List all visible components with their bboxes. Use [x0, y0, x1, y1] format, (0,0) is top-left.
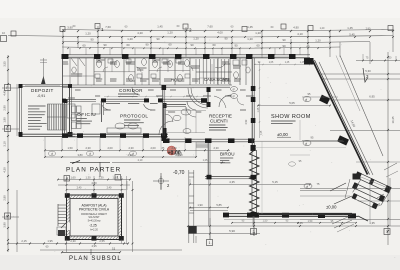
svg-text:1,20: 1,20	[255, 31, 261, 35]
svg-text:CORIDOR: CORIDOR	[119, 88, 143, 93]
svg-text:5,15: 5,15	[272, 180, 278, 184]
svg-text:5,30: 5,30	[365, 69, 371, 73]
svg-text:4,10: 4,10	[297, 32, 303, 36]
svg-text:1: 1	[101, 27, 104, 32]
svg-text:2,10: 2,10	[138, 159, 143, 162]
svg-text:1,50: 1,50	[67, 146, 73, 150]
svg-text:1,60: 1,60	[70, 175, 76, 179]
svg-text:5,85: 5,85	[216, 203, 222, 207]
svg-text:1: 1	[209, 241, 211, 245]
svg-text:90: 90	[282, 44, 286, 48]
svg-text:2,20: 2,20	[171, 146, 177, 150]
svg-text:3,80: 3,80	[77, 153, 83, 157]
svg-text:S=43,20mp: S=43,20mp	[88, 220, 101, 223]
svg-text:1,25: 1,25	[203, 159, 208, 162]
svg-text:1,20: 1,20	[193, 37, 199, 41]
svg-text:1,20: 1,20	[247, 37, 253, 41]
svg-text:90: 90	[90, 38, 94, 42]
svg-text:SCLIVISIT: SCLIVISIT	[88, 216, 100, 219]
svg-text:2,80: 2,80	[3, 195, 7, 201]
svg-text:90: 90	[282, 38, 286, 42]
svg-text:±0,00: ±0,00	[326, 205, 337, 210]
svg-text:3,90: 3,90	[3, 222, 7, 228]
svg-text:90: 90	[156, 37, 160, 41]
svg-text:4,35: 4,35	[229, 180, 235, 184]
svg-text:SHOW ROOM: SHOW ROOM	[271, 114, 311, 120]
svg-text:h=2,20: h=2,20	[90, 229, 98, 232]
svg-text:3,10: 3,10	[3, 141, 7, 147]
svg-text:1,90: 1,90	[3, 117, 7, 123]
svg-text:PROTOCOL: PROTOCOL	[120, 114, 148, 119]
svg-text:-2,25: -2,25	[89, 224, 97, 228]
svg-text:1,45: 1,45	[247, 25, 253, 29]
svg-text:-0,91: -0,91	[37, 94, 45, 98]
svg-text:7,60: 7,60	[105, 25, 111, 29]
svg-text:CLIENTI: CLIENTI	[210, 119, 228, 124]
svg-text:1,45: 1,45	[300, 62, 305, 64]
svg-text:2,40: 2,40	[107, 187, 112, 190]
svg-text:1,95: 1,95	[47, 239, 53, 243]
svg-text:1,20: 1,20	[320, 27, 325, 30]
svg-text:DEPOZIT: DEPOZIT	[31, 88, 54, 93]
svg-text:60: 60	[256, 44, 260, 48]
svg-text:2: 2	[189, 28, 192, 33]
svg-text:1,20: 1,20	[127, 37, 133, 41]
svg-text:4,20: 4,20	[137, 31, 143, 35]
svg-text:90: 90	[224, 37, 228, 41]
svg-text:90: 90	[145, 43, 149, 47]
svg-text:60: 60	[306, 45, 310, 49]
svg-text:±0,00: ±0,00	[277, 132, 288, 137]
svg-text:7,60: 7,60	[207, 24, 213, 28]
svg-text:90: 90	[103, 43, 107, 47]
svg-text:2,30: 2,30	[85, 146, 91, 150]
svg-text:5,05: 5,05	[289, 101, 295, 105]
svg-text:3,55: 3,55	[3, 61, 7, 67]
svg-text:2,80: 2,80	[366, 27, 371, 30]
svg-text:1,45: 1,45	[157, 25, 163, 29]
svg-text:4,95: 4,95	[91, 244, 97, 248]
svg-text:1,20: 1,20	[85, 32, 91, 36]
svg-text:4,90: 4,90	[293, 26, 299, 30]
svg-text:2,30: 2,30	[128, 146, 134, 150]
svg-text:-0,70: -0,70	[173, 170, 185, 176]
svg-text:1,45: 1,45	[347, 26, 353, 30]
svg-text:OFICIU: OFICIU	[77, 112, 96, 118]
svg-text:2,40: 2,40	[77, 187, 82, 190]
svg-text:1,50: 1,50	[263, 220, 268, 223]
svg-text:60: 60	[126, 43, 130, 47]
svg-text:60: 60	[168, 43, 172, 47]
svg-text:90: 90	[190, 43, 194, 47]
svg-text:60: 60	[82, 43, 86, 47]
svg-text:4,00: 4,00	[217, 31, 223, 35]
svg-text:PLAN SUBSOL: PLAN SUBSOL	[69, 256, 122, 262]
svg-text:1,65: 1,65	[269, 62, 274, 64]
svg-text:4,30: 4,30	[3, 167, 7, 173]
svg-text:5,45: 5,45	[349, 33, 355, 37]
svg-text:90: 90	[234, 43, 238, 47]
svg-text:HOL: HOL	[171, 78, 180, 83]
svg-text:6,95: 6,95	[369, 95, 375, 99]
svg-text:5,90: 5,90	[229, 229, 235, 233]
svg-text:1,20: 1,20	[315, 38, 321, 42]
svg-text:10,45: 10,45	[391, 116, 395, 123]
svg-text:11: 11	[112, 247, 116, 251]
svg-text:2,30: 2,30	[213, 146, 219, 150]
svg-text:60: 60	[212, 43, 216, 47]
svg-text:3: 3	[386, 230, 388, 234]
svg-text:BIROU: BIROU	[220, 152, 235, 157]
svg-text:1,45: 1,45	[285, 62, 290, 64]
svg-text:1,50: 1,50	[308, 220, 313, 223]
svg-text:1,20: 1,20	[167, 31, 173, 35]
svg-text:2,00: 2,00	[107, 146, 113, 150]
svg-text:2,15: 2,15	[21, 239, 27, 243]
svg-text:2,00: 2,00	[150, 146, 156, 150]
svg-text:4,80: 4,80	[91, 181, 97, 185]
svg-text:1,30: 1,30	[98, 175, 104, 179]
svg-text:1,30: 1,30	[85, 175, 91, 179]
svg-text:PROTECTIE CIVILA: PROTECTIE CIVILA	[79, 208, 110, 212]
svg-text:1,90: 1,90	[197, 203, 203, 207]
svg-text:2,52: 2,52	[245, 119, 248, 124]
svg-text:PLAN PARTER: PLAN PARTER	[66, 167, 121, 174]
svg-text:7,25: 7,25	[261, 130, 263, 135]
svg-text:2,90: 2,90	[3, 105, 7, 111]
